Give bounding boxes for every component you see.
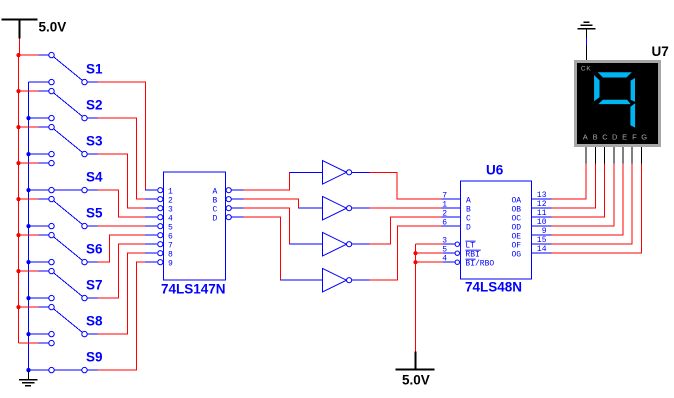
svg-text:LT: LT — [465, 242, 475, 251]
junction 5V-BI/RBO — [413, 260, 417, 264]
svg-text:U7: U7 — [652, 44, 669, 59]
svg-text:74LS48N: 74LS48N — [465, 280, 522, 295]
wire S3 to U5 pin 3 — [98, 154, 146, 208]
U6 input A pin 7 — [442, 191, 472, 205]
segment B (top-right) — [631, 78, 635, 102]
svg-text:4: 4 — [442, 254, 447, 263]
wire inverter U4 to U6 pin 6 (D) — [370, 226, 442, 280]
svg-text:OE: OE — [512, 232, 522, 241]
svg-text:B: B — [593, 133, 598, 142]
switch S3 — [16, 124, 97, 156]
svg-text:RBI: RBI — [465, 251, 479, 260]
wire U6 OF to display segment F — [552, 147, 633, 245]
label 74LS48N — [465, 280, 522, 295]
svg-text:D: D — [612, 133, 618, 142]
U5 input pin 4 (active-low) — [145, 214, 173, 223]
svg-text:74LS147N: 74LS147N — [161, 282, 226, 297]
svg-text:OG: OG — [512, 250, 522, 259]
label S9 — [86, 350, 103, 365]
wire inverter U2 to U6 pin 1 (B) — [370, 207, 442, 209]
svg-text:S4: S4 — [86, 170, 103, 185]
label S8 — [86, 314, 103, 329]
svg-text:3: 3 — [168, 205, 173, 214]
U6 output OD pin 10 — [512, 218, 552, 232]
svg-text:9: 9 — [542, 227, 547, 236]
seven-segment display U7 body — [576, 62, 660, 146]
svg-text:2: 2 — [168, 196, 173, 205]
U6 output OB pin 12 — [512, 200, 552, 214]
segment C (bottom-right) — [630, 103, 635, 127]
svg-text:S9: S9 — [86, 350, 103, 365]
svg-text:4: 4 — [168, 214, 173, 223]
svg-text:OD: OD — [512, 223, 522, 232]
svg-text:S5: S5 — [86, 206, 103, 221]
U6 output OG pin 14 — [512, 245, 552, 259]
priority encoder U5 74LS147N body — [164, 172, 226, 280]
svg-text:9: 9 — [168, 259, 173, 268]
U5 input pin 1 (active-low) — [145, 187, 173, 196]
wire U5 D to inverter U4 input — [244, 217, 283, 280]
svg-text:S2: S2 — [86, 98, 103, 113]
ground (top right, inverted) — [578, 22, 596, 60]
svg-text:S3: S3 — [86, 134, 103, 149]
power supply VCC 5.0V (top left) — [2, 19, 38, 39]
svg-text:OC: OC — [512, 214, 522, 223]
svg-text:S7: S7 — [86, 278, 103, 293]
U5 output A (active-low) — [213, 187, 244, 196]
wire S7 to U5 pin 7 — [98, 244, 146, 298]
U6 output OA pin 13 — [512, 191, 552, 205]
U6 control pin 3 LT — [428, 236, 476, 250]
wire S2 to U5 pin 2 — [98, 118, 146, 199]
svg-text:8: 8 — [168, 250, 173, 259]
svg-text:OB: OB — [512, 205, 522, 214]
svg-text:6: 6 — [442, 218, 447, 227]
wire S1 to U5 pin 1 — [98, 82, 146, 190]
label S4 — [86, 170, 103, 185]
junction 5V-RBI — [413, 251, 417, 255]
svg-text:12: 12 — [537, 200, 547, 209]
label U6 — [486, 163, 504, 178]
svg-text:10: 10 — [537, 218, 547, 227]
svg-text:S8: S8 — [86, 314, 103, 329]
wire U5 C to inverter U3 input — [244, 208, 292, 244]
label U7 — [652, 44, 669, 59]
svg-text:A: A — [213, 187, 218, 196]
svg-text:B: B — [213, 196, 218, 205]
U6 output OE pin 9 — [512, 227, 552, 241]
U5 output B (active-low) — [213, 196, 244, 205]
label S6 — [86, 242, 103, 257]
svg-text:D: D — [466, 223, 471, 232]
red 5V rail (vertical) — [18, 55, 20, 343]
svg-text:7: 7 — [168, 241, 173, 250]
U6 input C pin 2 — [442, 209, 472, 223]
wire U6 OD to display segment D — [552, 147, 614, 227]
svg-text:OA: OA — [512, 196, 522, 205]
inverter U4 (NOT gate) — [281, 268, 370, 292]
U6 input D pin 6 — [442, 218, 472, 232]
label S3 — [86, 134, 103, 149]
decoder U6 74LS48N body — [461, 181, 532, 279]
svg-text:BI/RBO: BI/RBO — [465, 260, 494, 269]
svg-text:S6: S6 — [86, 242, 103, 257]
switch S6 — [16, 232, 97, 264]
U5 output D (active-low) — [213, 214, 244, 223]
label 5.0V (bottom) — [402, 373, 430, 388]
wire S4 to U5 pin 4 — [98, 190, 146, 217]
label 5.0V (top left) — [39, 20, 67, 35]
switch S1 — [16, 52, 97, 84]
wire U5 B to inverter U2 input — [244, 199, 301, 208]
power supply 5.0V (bottom) — [396, 352, 435, 370]
svg-text:C: C — [466, 214, 471, 223]
svg-text:5.0V: 5.0V — [402, 373, 430, 388]
wire U6 OE to display segment E — [552, 147, 624, 236]
U6 input B pin 1 — [442, 200, 472, 214]
segment F (top-left) — [594, 75, 599, 101]
ground (bottom left) — [19, 370, 38, 386]
label 74LS147N — [161, 282, 226, 297]
wire S5 to U5 pin 5 — [98, 225, 146, 227]
label S7 — [86, 278, 103, 293]
svg-text:B: B — [466, 205, 471, 214]
wire inverter U1 to U6 pin 7 (A) — [370, 172, 442, 199]
switch S9 — [19, 340, 98, 372]
switch S2 — [16, 88, 97, 120]
wire VCC to red rail — [19, 39, 21, 56]
segment A (top) — [598, 72, 632, 77]
switch S5 — [16, 196, 97, 228]
wire S1 lower terminal to blue rail corner — [28, 81, 30, 83]
svg-text:CK: CK — [581, 66, 592, 73]
svg-text:OF: OF — [512, 241, 522, 250]
svg-text:7: 7 — [442, 191, 447, 200]
switch S7 — [16, 268, 97, 300]
blue ground rail (vertical) — [28, 82, 30, 370]
svg-text:S1: S1 — [86, 62, 103, 77]
U5 input pin 5 (active-low) — [145, 223, 173, 232]
U5 input pin 2 (active-low) — [145, 196, 173, 205]
label S5 — [86, 206, 103, 221]
svg-text:A: A — [583, 133, 588, 142]
svg-text:1: 1 — [168, 187, 173, 196]
svg-text:14: 14 — [537, 245, 547, 254]
inverter U2 (NOT gate) — [299, 196, 370, 220]
U5 output C (active-low) — [213, 205, 244, 214]
svg-text:13: 13 — [537, 191, 547, 200]
inverter U1 (NOT gate) — [290, 161, 370, 185]
svg-text:E: E — [622, 133, 627, 142]
svg-text:5.0V: 5.0V — [39, 20, 67, 35]
svg-text:C: C — [213, 205, 218, 214]
U5 input pin 8 (active-low) — [145, 250, 173, 259]
svg-text:6: 6 — [168, 232, 173, 241]
wire S6 to U5 pin 6 — [98, 235, 146, 262]
wire S9 to U5 pin 9 — [98, 262, 146, 370]
U6 output OF pin 15 — [512, 236, 552, 250]
svg-text:G: G — [641, 133, 647, 142]
svg-text:5: 5 — [442, 245, 447, 254]
svg-text:3: 3 — [442, 236, 447, 245]
svg-text:11: 11 — [537, 209, 547, 218]
label S2 — [86, 98, 103, 113]
svg-text:C: C — [602, 133, 608, 142]
wire U6 OC to display segment C — [552, 147, 605, 218]
switch S8 — [16, 304, 97, 336]
svg-text:A: A — [466, 196, 471, 205]
inverter U3 (NOT gate) — [290, 232, 370, 256]
wire U6 OA to display segment A — [552, 147, 587, 200]
U6 control pin 4 BI/RBO — [428, 254, 494, 268]
U5 input pin 6 (active-low) — [145, 232, 173, 241]
wire U5 A to inverter U1 input — [244, 172, 292, 190]
U5 input pin 9 (active-low) — [145, 259, 173, 268]
wire U6 OG to display segment G — [552, 147, 642, 254]
svg-text:F: F — [632, 133, 637, 142]
U6 output OC pin 11 — [512, 209, 552, 223]
junction blue rail - S9 - ground — [26, 368, 30, 372]
wire S8 to U5 pin 8 — [98, 253, 146, 334]
wire inverter U3 to U6 pin 2 (C) — [370, 217, 442, 244]
segment G (middle) — [598, 100, 630, 104]
svg-text:15: 15 — [537, 236, 547, 245]
svg-text:1: 1 — [442, 200, 447, 209]
svg-text:D: D — [213, 214, 218, 223]
svg-text:U6: U6 — [486, 163, 504, 178]
label S1 — [86, 62, 103, 77]
U5 input pin 7 (active-low) — [145, 241, 173, 250]
U6 control pin 5 RBI — [428, 245, 481, 259]
U5 input pin 3 (active-low) — [145, 205, 173, 214]
svg-text:5: 5 — [168, 223, 173, 232]
svg-text:2: 2 — [442, 209, 447, 218]
switch S4 — [16, 160, 97, 192]
wire 5V to U6 LT/RBI/BI — [416, 244, 429, 351]
wire U6 OB to display segment B — [552, 147, 596, 209]
